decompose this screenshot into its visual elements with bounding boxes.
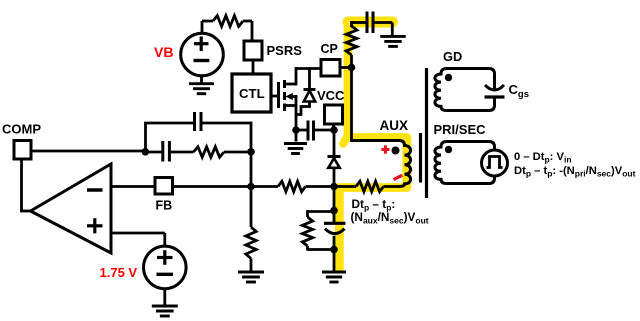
svg-text:Cgs: Cgs — [509, 82, 529, 100]
wire FB to node C — [173, 185, 279, 188]
wire node B down — [250, 152, 253, 188]
block PSRS — [244, 41, 262, 60]
pulse source U2 — [482, 150, 508, 176]
block CTL — [232, 74, 271, 112]
label AUX — [380, 118, 409, 133]
node PRI polarity dot — [445, 146, 452, 153]
label VCC — [317, 88, 345, 103]
wire R2 to node B — [224, 151, 251, 154]
label VB — [154, 44, 173, 60]
voltage source 1.75V — [144, 246, 187, 289]
svg-text:PSRS: PSRS — [267, 43, 303, 58]
core bar left — [419, 133, 422, 183]
wire comp feedback upper branch — [144, 123, 194, 152]
wire PSRS to CTL — [252, 60, 255, 74]
wire resistor to PSRS — [243, 21, 252, 41]
wire COMP to node A — [31, 150, 147, 153]
svg-text:GD: GD — [443, 49, 462, 64]
capacitor C3 (feedback upper) — [195, 112, 202, 131]
label PSRS — [267, 43, 303, 58]
node VCC junction — [330, 126, 338, 134]
polarity - (red) — [394, 175, 403, 179]
wire source to cap — [296, 129, 308, 132]
wire VCC node down — [333, 130, 336, 157]
label Cgs — [509, 82, 529, 100]
svg-text:AUX: AUX — [380, 118, 409, 133]
svg-text:FB: FB — [156, 199, 173, 213]
label CP — [321, 42, 338, 56]
label CTL — [239, 86, 265, 101]
ground below VB — [189, 76, 214, 94]
resistor R2 (feedback) — [194, 147, 225, 157]
resistor R3 (node B to gnd) — [246, 188, 256, 271]
diode D1 (body diode) — [296, 67, 316, 114]
label GD — [443, 49, 462, 64]
block CP — [321, 60, 340, 77]
resistor R6 (RC filter) — [302, 217, 312, 246]
wire node F to ground — [333, 250, 336, 271]
op-amp U1 — [31, 164, 112, 253]
wire top to cap — [352, 21, 368, 24]
core bar right — [425, 68, 428, 198]
wire VB top — [202, 21, 213, 33]
winding PRI/SEC — [435, 142, 495, 184]
annotation PRI voltage — [514, 151, 636, 179]
wire inverting input — [111, 185, 155, 188]
wire upper branch right — [201, 122, 251, 152]
transistor Q1 drain lead — [285, 67, 297, 85]
ground below 1.75V — [152, 289, 178, 316]
svg-text:CP: CP — [321, 42, 338, 56]
transistor Q1 source lead — [285, 95, 297, 131]
node C — [247, 183, 255, 191]
node F — [330, 246, 338, 254]
resistor R4 (FB line) — [278, 181, 306, 191]
winding AUX — [352, 141, 411, 187]
node CP junction — [348, 64, 356, 72]
yellow corner blob — [343, 134, 348, 144]
wire node D to R5 — [334, 185, 356, 188]
svg-text:Dtp – tp: -(Npri/Nsec)Vout: Dtp – tp: -(Npri/Nsec)Vout — [514, 165, 636, 179]
svg-text:COMP: COMP — [2, 122, 41, 137]
polarity + (red) — [381, 145, 389, 153]
capacitor C4 (feedback lower) — [163, 141, 170, 162]
label COMP — [2, 122, 41, 137]
wire R5 to AUX winding — [384, 185, 400, 188]
wire COMP to op-amp output — [20, 159, 31, 211]
ground below R3 — [238, 272, 264, 282]
svg-text:CTL: CTL — [239, 86, 265, 101]
wire VCC block stub — [332, 124, 335, 130]
svg-text:0 – Dtp: Vin: 0 – Dtp: Vin — [514, 151, 572, 165]
port COMP — [14, 141, 31, 160]
resistor CP (in series) — [346, 21, 357, 55]
svg-text:VB: VB — [154, 44, 173, 60]
wire CP node down — [350, 55, 353, 142]
node AUX polarity dot — [392, 147, 400, 155]
annotation AUX voltage — [351, 197, 429, 226]
node D — [330, 183, 338, 191]
capacitor C5 (RC filter) — [324, 211, 346, 250]
block VCC — [325, 105, 343, 124]
wire CP to node — [340, 66, 353, 69]
wire cap to ground top — [373, 23, 392, 37]
wire R4 to node D — [306, 185, 335, 188]
label FB — [156, 199, 173, 213]
svg-text:VCC: VCC — [317, 88, 345, 103]
node source junction — [292, 126, 300, 134]
transistor Q1 body arrow — [285, 93, 297, 100]
capacitor C1 (VCC cap) — [308, 121, 314, 141]
highlighted AUX sense loop (yellow) — [339, 22, 407, 269]
resistor R5 (AUX return) — [356, 181, 384, 191]
transistor Q1 gate bar — [277, 82, 280, 108]
wire cap to VCC node — [314, 129, 335, 132]
wire CTL to gate — [271, 95, 280, 98]
wire lower branch — [145, 151, 193, 154]
voltage source VB — [181, 33, 224, 76]
diode D2 — [328, 157, 341, 189]
label 1.75 V — [100, 265, 138, 280]
svg-text:PRI/SEC: PRI/SEC — [434, 122, 487, 137]
wire node D down — [333, 187, 336, 213]
ground below source — [284, 130, 307, 154]
yellow top band — [348, 17, 393, 28]
label PRI/SEC — [434, 122, 487, 137]
svg-text:1.75 V: 1.75 V — [100, 265, 138, 280]
wire drain to CP — [296, 67, 321, 70]
capacitor Cgs — [485, 85, 505, 97]
wire RC top rail — [307, 210, 335, 217]
ground bottom middle — [322, 272, 346, 282]
node E — [330, 207, 338, 215]
node A — [142, 148, 150, 156]
transistor Q1 channel — [283, 80, 286, 111]
ground top right — [380, 36, 406, 46]
node B — [247, 148, 255, 156]
winding GD — [435, 69, 495, 111]
capacitor C2 (top) — [367, 12, 373, 34]
wire RC bottom rail — [307, 246, 335, 250]
wire non-inverting input — [111, 233, 165, 247]
resistor top (VB to PSRS) — [213, 16, 243, 27]
node GD polarity dot — [445, 74, 452, 81]
block FB — [155, 178, 173, 195]
